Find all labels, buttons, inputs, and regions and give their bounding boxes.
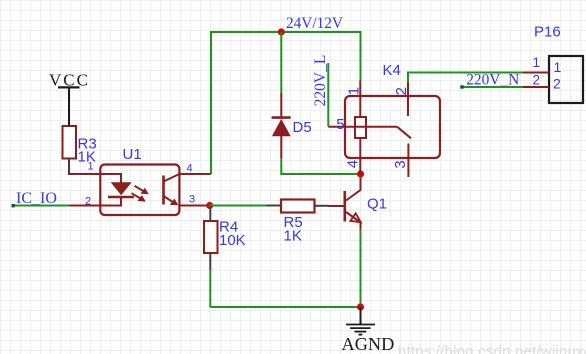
K4 coil <box>355 117 366 138</box>
wire: vertical from rail down to relay K4 pin 1 <box>360 31 362 81</box>
svg-text:220V_L: 220V_L <box>312 55 329 107</box>
resistor R5 <box>281 200 315 213</box>
node: IC_IO wire end tick <box>12 204 15 207</box>
wire: 220V_N net to P16 pin 2 <box>462 86 524 88</box>
diode D5 <box>272 93 291 158</box>
svg-text:1: 1 <box>88 161 94 173</box>
svg-text:P16: P16 <box>534 23 561 40</box>
resistor R3 <box>63 126 77 159</box>
U1 pin 1 <box>69 173 101 175</box>
wire: U1 pin3 node to R5 <box>210 205 267 207</box>
phototransistor inside U1 <box>162 176 165 205</box>
K4 switch blade <box>397 127 411 139</box>
K4 pin 5 lead through coil <box>328 126 397 128</box>
wire: from rail down to D5 cathode <box>280 32 282 94</box>
svg-text:2: 2 <box>553 76 561 92</box>
resistor R4 <box>204 221 218 253</box>
optocoupler U1 <box>69 165 211 216</box>
U1 pin 3 <box>179 205 208 207</box>
svg-text:4: 4 <box>187 163 193 175</box>
svg-text:AGND: AGND <box>342 334 395 354</box>
K4 pin 1 lead <box>359 81 361 118</box>
transistor Q1 <box>329 174 361 230</box>
svg-text:3: 3 <box>189 194 195 206</box>
LED light arrows <box>135 186 146 192</box>
node: junction dot on 24V/12V rail at D5 branch <box>278 28 285 35</box>
power port VCC <box>49 70 90 126</box>
svg-text:1: 1 <box>554 59 562 75</box>
resistor R5 leads <box>266 205 281 207</box>
wire: bottom AGND rail <box>210 306 360 308</box>
relay K4 <box>328 81 440 178</box>
node: junction dot at U1 pin 3 <box>206 202 213 209</box>
wire: R3 bottom lead to U1 pin 1 corner <box>68 159 70 176</box>
P16 pin 1 stub <box>523 72 549 74</box>
svg-text:5: 5 <box>336 116 344 133</box>
svg-text:K4: K4 <box>383 62 401 79</box>
wire: R4 top lead <box>209 206 211 221</box>
wire: relay pin 2 to P16 pin 1 <box>408 73 524 83</box>
wire: Q1 emitter down to bottom rail <box>360 229 362 307</box>
node: junction dot at bottom rail / AGND <box>357 303 364 310</box>
svg-text:1: 1 <box>346 87 363 95</box>
wire: 220V_L net down to relay pin 5 <box>327 63 329 127</box>
svg-text:24V/12V: 24V/12V <box>286 15 343 32</box>
svg-text:D5: D5 <box>293 119 312 136</box>
node: 220V_N wire end tick <box>460 85 463 88</box>
wire: IC_IO net into U1 pin 2 <box>13 205 70 207</box>
U1 pin 4 <box>179 173 210 175</box>
svg-text:2: 2 <box>85 196 91 208</box>
svg-text:1K: 1K <box>284 228 302 245</box>
K4 pin 3 lead <box>407 144 409 178</box>
wire: R4 bottom lead <box>209 253 211 270</box>
P16 pin 2 stub <box>523 86 549 88</box>
svg-text:2: 2 <box>393 87 410 95</box>
wire: from D5 anode down and right to relay pin 4 / Q1 collector node <box>281 158 360 175</box>
svg-text:Q1: Q1 <box>367 196 387 213</box>
U1 pin 2 <box>69 205 100 207</box>
svg-text:3: 3 <box>392 160 409 168</box>
svg-text:2: 2 <box>533 72 541 87</box>
ground AGND <box>342 307 395 354</box>
svg-text:https://blog.csdn.net/wjinux41: https://blog.csdn.net/wjinux4123 <box>398 343 586 354</box>
svg-text:4: 4 <box>344 160 361 168</box>
node: junction dot at Q1 collector / relay pin 4 <box>357 170 364 177</box>
wire: R4 to bottom rail <box>209 269 211 307</box>
svg-text:1: 1 <box>533 55 541 70</box>
wire: vertical from rail down to U1 pin 4 <box>210 31 212 174</box>
LED inside U1 <box>100 174 121 183</box>
svg-text:10K: 10K <box>219 232 246 249</box>
K4 pin 4 lead <box>359 138 361 174</box>
svg-text:U1: U1 <box>123 146 142 163</box>
svg-text:220V_N: 220V_N <box>466 72 519 89</box>
connector P16 <box>523 56 583 103</box>
K4 pin 2 lead <box>407 82 409 116</box>
wire: top 24V/12V rail <box>211 31 361 33</box>
svg-text:IC_IO: IC_IO <box>16 190 57 207</box>
